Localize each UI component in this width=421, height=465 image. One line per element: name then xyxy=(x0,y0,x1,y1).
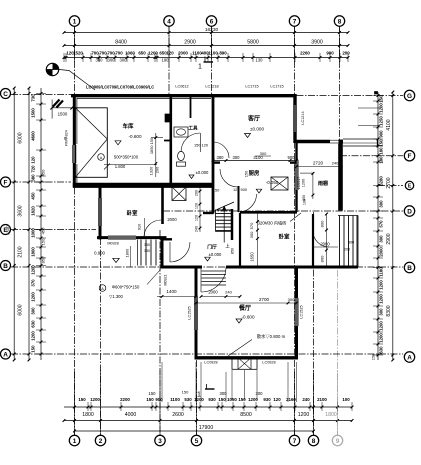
svg-text:F: F xyxy=(408,153,412,160)
svg-text:1650: 1650 xyxy=(250,252,255,262)
svg-text:700: 700 xyxy=(99,50,107,55)
svg-text:150: 150 xyxy=(238,397,246,402)
svg-text:150: 150 xyxy=(149,391,157,396)
exterior steps west xyxy=(140,240,142,266)
svg-text:2000: 2000 xyxy=(208,290,218,295)
grid axis 8 vertical top xyxy=(339,27,341,142)
wall axis B west segment xyxy=(161,266,203,269)
svg-text:6000: 6000 xyxy=(18,132,24,143)
svg-text:16230: 16230 xyxy=(205,27,219,33)
svg-text:2160: 2160 xyxy=(286,397,296,402)
svg-text:LC1218: LC1218 xyxy=(205,85,218,89)
elevation triangle entry hall xyxy=(205,257,211,261)
elevation triangle dining xyxy=(236,319,242,323)
dim line garage interior vertical xyxy=(155,133,157,177)
svg-text:190: 190 xyxy=(162,58,170,63)
svg-text:700: 700 xyxy=(107,50,115,55)
grid axis 2 vertical bottom xyxy=(100,238,102,435)
svg-text:150: 150 xyxy=(78,397,86,402)
svg-text:300: 300 xyxy=(378,308,383,316)
axis bubble 1 top xyxy=(69,16,79,26)
wall bath west xyxy=(170,97,173,183)
elevation triangle bath south xyxy=(189,175,194,179)
svg-text:530: 530 xyxy=(184,397,192,402)
svg-text:A: A xyxy=(407,354,412,361)
svg-text:120: 120 xyxy=(166,50,174,55)
dim line annex 2720 xyxy=(297,166,344,168)
svg-text:4100: 4100 xyxy=(386,119,392,130)
dim 1500 garage xyxy=(52,107,72,109)
svg-text:1100: 1100 xyxy=(208,50,218,55)
svg-text:4600: 4600 xyxy=(31,131,36,141)
note footing A lower xyxy=(99,285,106,292)
grid axis F left stub xyxy=(11,181,71,183)
svg-text:350: 350 xyxy=(144,243,150,247)
wall hall south stub xyxy=(163,238,172,240)
axis bubble 3 bottom xyxy=(155,435,165,445)
svg-text:卧室: 卧室 xyxy=(278,233,290,241)
window west wall garage xyxy=(72,145,76,163)
axis bubble 8 bottom xyxy=(308,435,318,445)
svg-text:LC1525: LC1525 xyxy=(188,306,192,319)
svg-text:2000: 2000 xyxy=(320,241,330,246)
svg-text:890: 890 xyxy=(219,50,227,55)
wall annex east xyxy=(295,142,297,213)
grid axis E left stub xyxy=(11,229,96,231)
svg-text:FM甲824: FM甲824 xyxy=(64,130,69,146)
svg-text:700: 700 xyxy=(91,50,99,55)
svg-text:5800: 5800 xyxy=(247,39,259,45)
svg-text:A: A xyxy=(101,287,104,291)
svg-text:850: 850 xyxy=(231,248,235,254)
axis bubble E left xyxy=(1,225,11,235)
svg-text:300: 300 xyxy=(233,155,241,160)
svg-text:1200: 1200 xyxy=(31,265,36,275)
svg-text:900: 900 xyxy=(378,130,383,138)
axis bubble F left xyxy=(1,177,11,187)
svg-text:D: D xyxy=(407,208,412,215)
svg-text:±0.000: ±0.000 xyxy=(250,127,264,132)
stair well wall east xyxy=(231,209,234,240)
wall stub garage door jamb xyxy=(164,140,172,142)
svg-text:1200: 1200 xyxy=(90,397,100,402)
svg-text:3280: 3280 xyxy=(378,176,383,186)
right leader lines upper xyxy=(358,107,380,109)
wall north exterior xyxy=(71,94,297,97)
svg-text:630: 630 xyxy=(31,320,36,328)
svg-text:门厅: 门厅 xyxy=(207,244,217,251)
svg-text:800: 800 xyxy=(319,255,324,262)
svg-text:2260: 2260 xyxy=(300,50,310,55)
svg-text:8300: 8300 xyxy=(386,305,392,316)
svg-text:2600: 2600 xyxy=(172,412,184,418)
svg-text:B: B xyxy=(3,263,8,270)
svg-text:150: 150 xyxy=(378,139,383,147)
svg-text:300: 300 xyxy=(378,235,383,243)
svg-text:上: 上 xyxy=(225,243,230,249)
dim line bedroom vertical xyxy=(144,218,146,236)
svg-text:2700: 2700 xyxy=(259,297,270,302)
svg-text:雨棚: 雨棚 xyxy=(318,180,328,187)
svg-text:1: 1 xyxy=(198,64,202,71)
svg-text:1200: 1200 xyxy=(378,321,383,331)
svg-text:1180: 1180 xyxy=(378,267,383,277)
svg-text:车库: 车库 xyxy=(122,122,134,130)
survey point symbol top-left xyxy=(46,63,58,75)
svg-text:散水▽0.800 m: 散水▽0.800 m xyxy=(257,333,286,340)
svg-text:150: 150 xyxy=(182,390,189,395)
svg-text:0.900: 0.900 xyxy=(94,250,105,255)
shaft with X hall xyxy=(172,187,186,201)
svg-text:1200: 1200 xyxy=(31,331,36,341)
svg-text:LC0928: LC0928 xyxy=(204,361,217,365)
svg-text:F: F xyxy=(4,179,8,186)
svg-text:4000: 4000 xyxy=(125,412,137,418)
svg-text:LC1715: LC1715 xyxy=(270,85,283,89)
svg-text:240: 240 xyxy=(225,290,232,295)
svg-text:1200: 1200 xyxy=(378,294,383,304)
svg-text:1800: 1800 xyxy=(125,248,130,257)
dim line kitchen north xyxy=(213,160,297,162)
svg-text:130: 130 xyxy=(256,58,264,63)
svg-text:7: 7 xyxy=(293,438,297,445)
svg-text:3600: 3600 xyxy=(18,205,24,216)
svg-text:1060: 1060 xyxy=(125,50,135,55)
svg-text:-0.600: -0.600 xyxy=(128,134,141,139)
grid axis 1 vertical xyxy=(74,27,76,436)
svg-text:LC0612: LC0612 xyxy=(175,85,188,89)
axis bubble D right xyxy=(404,206,414,216)
grid axis 9 vertical faint xyxy=(337,270,339,435)
stair break line xyxy=(217,202,234,210)
svg-text:9: 9 xyxy=(336,438,340,445)
leader line from survey point xyxy=(59,70,95,91)
wall kitchen-hall xyxy=(238,186,240,212)
svg-text:180: 180 xyxy=(378,147,383,155)
svg-text:180: 180 xyxy=(378,156,383,164)
wall porch west xyxy=(312,214,314,268)
grid axis E right stub xyxy=(378,185,403,187)
svg-text:150: 150 xyxy=(31,345,36,353)
wall dining west xyxy=(195,266,198,360)
svg-text:200: 200 xyxy=(155,166,160,173)
svg-text:450: 450 xyxy=(41,227,46,234)
exterior steps east xyxy=(339,216,341,268)
svg-text:4: 4 xyxy=(167,18,171,25)
wall bedroom bottom xyxy=(97,236,167,239)
balcony rails right xyxy=(343,138,378,140)
fixture cabinet bath west xyxy=(165,114,171,122)
shaft with X kitchen xyxy=(271,177,288,190)
grid axis B horizontal xyxy=(11,266,403,268)
svg-text:240: 240 xyxy=(302,397,310,402)
elevation triangle living xyxy=(245,134,251,138)
svg-text:LC1214: LC1214 xyxy=(301,111,305,124)
svg-text:300: 300 xyxy=(256,391,264,396)
svg-text:630: 630 xyxy=(378,346,383,354)
svg-text:120: 120 xyxy=(194,203,198,209)
left dimension lines xyxy=(13,88,15,360)
svg-text:200: 200 xyxy=(344,248,350,252)
svg-text:380: 380 xyxy=(31,174,36,182)
svg-text:930: 930 xyxy=(208,397,216,402)
svg-text:LC1715: LC1715 xyxy=(245,85,258,89)
svg-text:2720: 2720 xyxy=(313,161,324,166)
svg-text:200: 200 xyxy=(194,190,198,196)
svg-text:8400: 8400 xyxy=(115,39,127,45)
wall bedroom2 north xyxy=(240,211,297,214)
svg-text:1200: 1200 xyxy=(31,292,36,302)
svg-text:8500: 8500 xyxy=(240,412,252,418)
svg-text:730: 730 xyxy=(31,94,36,102)
svg-text:工具: 工具 xyxy=(188,125,198,132)
garage door panel triangle symbol xyxy=(75,108,107,178)
svg-text:350: 350 xyxy=(144,249,150,253)
wall axis D west segment xyxy=(203,212,214,214)
grid axis 8b vertical bottom xyxy=(313,212,315,435)
svg-text:1500: 1500 xyxy=(31,108,36,118)
svg-text:8: 8 xyxy=(312,438,316,445)
svg-text:1200: 1200 xyxy=(301,179,305,187)
wall bedroom east xyxy=(161,187,164,224)
window dining east LC1525 xyxy=(295,298,299,326)
svg-text:450: 450 xyxy=(41,169,46,176)
svg-text:1200: 1200 xyxy=(378,280,383,290)
svg-text:1800: 1800 xyxy=(325,412,337,418)
grid axis 3 vertical bottom xyxy=(159,230,161,435)
wall kitchen north east stub xyxy=(290,161,297,163)
svg-text:150: 150 xyxy=(218,397,226,402)
axis bubble B left xyxy=(1,261,11,271)
svg-text:2: 2 xyxy=(99,438,103,445)
svg-text:300: 300 xyxy=(260,151,267,156)
svg-text:2900: 2900 xyxy=(386,233,392,244)
svg-text:150: 150 xyxy=(244,170,249,177)
grid axis G horizontal right stub xyxy=(297,95,404,97)
grid axis 4 vertical top xyxy=(168,27,170,96)
svg-text:1050: 1050 xyxy=(227,397,237,402)
svg-text:1520: 1520 xyxy=(73,50,83,55)
svg-text:1: 1 xyxy=(73,438,77,445)
svg-text:±0.000: ±0.000 xyxy=(196,170,209,175)
svg-text:厨房: 厨房 xyxy=(249,169,260,177)
svg-text:700: 700 xyxy=(115,50,123,55)
svg-text:3: 3 xyxy=(158,438,162,445)
grid axis A horizontal xyxy=(11,353,403,355)
door arc kitchen xyxy=(220,169,238,187)
svg-text:C: C xyxy=(3,91,8,98)
svg-text:3900: 3900 xyxy=(311,39,323,45)
svg-text:300: 300 xyxy=(378,200,383,208)
svg-text:6000: 6000 xyxy=(18,304,24,315)
axis bubble 8 top xyxy=(334,16,344,26)
axis bubble 2 bottom xyxy=(95,435,105,445)
svg-text:910: 910 xyxy=(137,223,142,230)
axis bubble G right xyxy=(404,90,414,100)
svg-text:1200: 1200 xyxy=(378,333,383,343)
svg-text:150: 150 xyxy=(146,397,154,402)
svg-text:1320: 1320 xyxy=(149,166,154,175)
grid axis G horizontal left stub xyxy=(11,94,71,96)
svg-text:900: 900 xyxy=(288,155,296,160)
svg-text:5: 5 xyxy=(195,438,199,445)
wall west exterior mid xyxy=(99,185,102,239)
svg-text:-0.600: -0.600 xyxy=(241,314,254,319)
svg-text:2100: 2100 xyxy=(317,397,327,402)
window annex east xyxy=(295,160,299,190)
elevation triangle kitchen xyxy=(256,189,262,193)
svg-text:300: 300 xyxy=(108,58,116,63)
wall dining east xyxy=(295,266,298,360)
svg-text:1100: 1100 xyxy=(170,397,180,402)
door arc dining entry xyxy=(201,267,226,292)
wall kitchen north west stub xyxy=(213,161,220,163)
stair direction arrow xyxy=(223,207,225,243)
svg-text:1500: 1500 xyxy=(58,111,68,116)
dining door threshold steps xyxy=(202,270,227,272)
door arc hall entry xyxy=(170,242,190,262)
wall dining south xyxy=(195,356,299,359)
wall west entry side xyxy=(161,239,164,269)
svg-text:1200: 1200 xyxy=(378,103,383,113)
grid axis 6 vertical top xyxy=(211,27,213,96)
dim line bedroom2 vertical xyxy=(257,213,259,268)
svg-text:A: A xyxy=(3,351,8,358)
svg-text:卧室: 卧室 xyxy=(126,209,138,217)
svg-text:150 120: 150 120 xyxy=(194,143,209,148)
svg-text:1200: 1200 xyxy=(148,50,158,55)
svg-text:100: 100 xyxy=(342,397,350,402)
axis bubble C left xyxy=(1,89,11,99)
svg-text:2000: 2000 xyxy=(167,217,177,222)
svg-text:2700: 2700 xyxy=(386,177,392,188)
svg-text:7: 7 xyxy=(293,18,297,25)
svg-text:1400: 1400 xyxy=(166,289,177,294)
wall west inner face upper xyxy=(76,98,78,144)
svg-text:200: 200 xyxy=(342,50,350,55)
axis bubble 9 bottom faint xyxy=(332,435,342,445)
svg-text:餐厅: 餐厅 xyxy=(238,304,251,312)
svg-text:300: 300 xyxy=(249,231,254,238)
svg-text:570: 570 xyxy=(249,222,254,229)
svg-text:1.800: 1.800 xyxy=(115,164,126,169)
dim 1400 west entry xyxy=(157,296,196,298)
wall bath partition stub xyxy=(190,97,192,118)
wall west inner face lower xyxy=(76,164,78,183)
bottom dimension lines xyxy=(64,406,352,408)
bay window dining south xyxy=(232,358,257,370)
wall living east xyxy=(293,94,296,143)
svg-text:150: 150 xyxy=(378,95,383,103)
toilet bath xyxy=(178,151,185,160)
svg-text:300: 300 xyxy=(288,297,295,302)
grid axis D horizontal xyxy=(163,210,403,212)
svg-text:800: 800 xyxy=(319,220,324,227)
axis bubble A right xyxy=(404,352,414,362)
svg-text:1850 150: 1850 150 xyxy=(149,137,154,154)
svg-text:1200: 1200 xyxy=(298,412,310,418)
wall north inner face line xyxy=(77,97,212,99)
axis bubble F right xyxy=(404,151,414,161)
svg-text:240: 240 xyxy=(194,226,198,232)
svg-text:8: 8 xyxy=(338,18,342,25)
extension lines plan to bottom dims xyxy=(161,362,163,402)
dim line garage interior horizontal xyxy=(104,164,157,166)
svg-text:300: 300 xyxy=(31,307,36,315)
axis bubble 6 top xyxy=(206,16,216,26)
svg-text:客厅: 客厅 xyxy=(247,115,260,123)
axis bubble E right xyxy=(405,181,413,189)
svg-text:1: 1 xyxy=(73,18,77,25)
svg-text:5840: 5840 xyxy=(6,225,11,235)
svg-text:2100: 2100 xyxy=(18,246,24,257)
svg-text:M0928: M0928 xyxy=(107,242,118,246)
svg-text:150: 150 xyxy=(302,195,306,201)
annex east window dim xyxy=(312,173,314,199)
svg-text:6: 6 xyxy=(210,18,214,25)
door arc kitchen-hall xyxy=(239,194,257,212)
dim line porch vertical xyxy=(326,214,328,267)
grid axis 7 vertical xyxy=(294,27,296,436)
svg-text:17900: 17900 xyxy=(199,425,214,431)
svg-text:120: 120 xyxy=(31,156,36,164)
svg-text:LC1525: LC1525 xyxy=(300,305,304,318)
wall west exterior upper xyxy=(73,94,76,187)
svg-text:-0.050: -0.050 xyxy=(266,180,279,185)
dim line dining north 2700 xyxy=(196,302,297,304)
svg-text:150: 150 xyxy=(213,188,220,193)
svg-text:1800: 1800 xyxy=(82,412,94,418)
svg-text:320M30 内墙砖: 320M30 内墙砖 xyxy=(258,220,287,227)
top dimension lines xyxy=(64,32,348,34)
staircase flight A up xyxy=(216,209,233,211)
svg-text:1820: 1820 xyxy=(31,206,36,216)
wall band garage bottom bedroom top xyxy=(73,183,213,188)
svg-text:300: 300 xyxy=(96,58,104,63)
axis bubble B right xyxy=(404,262,414,272)
window living east LC1214 xyxy=(293,105,297,132)
svg-text:120: 120 xyxy=(273,397,281,402)
svg-text:LC0928: LC0928 xyxy=(262,361,275,365)
svg-text:120 900: 120 900 xyxy=(233,187,248,192)
axis bubble 5 bottom xyxy=(191,435,201,445)
svg-text:1000: 1000 xyxy=(31,228,36,238)
wall bedroom2 west xyxy=(239,213,241,268)
svg-text:570: 570 xyxy=(378,220,383,228)
svg-text:300: 300 xyxy=(120,58,128,63)
svg-text:720: 720 xyxy=(31,165,36,173)
svg-text:B: B xyxy=(407,265,412,272)
wall annex north xyxy=(296,140,343,143)
axis bubble A left xyxy=(1,349,11,359)
door arc bedroom xyxy=(144,220,161,237)
axis bubble 1 bottom xyxy=(69,435,79,445)
dim line hall vertical xyxy=(199,186,201,232)
window dining west LC1525 xyxy=(194,296,198,330)
svg-text:850: 850 xyxy=(41,256,46,263)
grid axis 5 vertical bottom xyxy=(196,268,198,435)
wall east pier xyxy=(338,140,343,211)
svg-text:M0921: M0921 xyxy=(164,275,168,286)
svg-text:±0.000: ±0.000 xyxy=(209,252,222,257)
annex north wall opening xyxy=(330,139,339,144)
svg-text:1: 1 xyxy=(197,392,201,399)
svg-text:240: 240 xyxy=(332,161,339,166)
door arc porch xyxy=(313,231,329,247)
svg-text:2900: 2900 xyxy=(184,39,196,45)
svg-text:450: 450 xyxy=(31,192,36,200)
svg-text:A: A xyxy=(100,156,103,160)
